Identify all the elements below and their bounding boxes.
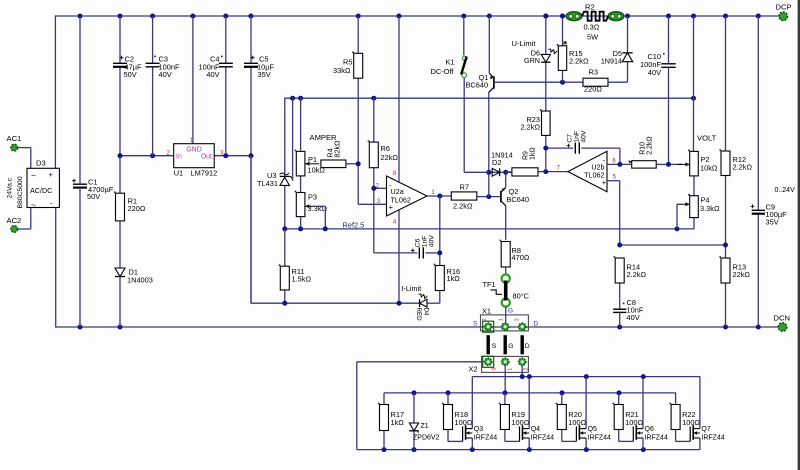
svg-text:P4: P4 [701,195,710,204]
svg-text:S: S [473,321,477,328]
junctions gate rail [412,390,622,395]
wire R22 top [675,393,677,405]
svg-text:35V: 35V [766,218,779,227]
diode D2 1N914 [491,150,513,176]
svg-text:3.3kΩ: 3.3kΩ [308,204,328,213]
junction Out line [223,153,253,158]
wire left edge bottom (D3 - to bus) [55,208,57,328]
wire P3 wiper to Ref [313,206,325,229]
svg-text:C6: C6 [415,238,422,247]
wire U1 In line [120,155,174,157]
voltage regulator U1 LM7912 [167,138,225,178]
potentiometer P1 10k [295,150,326,176]
transistor Q4 IRFZ44 [520,425,555,441]
wire Q6 source [642,438,644,450]
junction R10/C10/P2-wiper [666,162,671,167]
junction C7/R23 column [543,146,548,151]
svg-text:R7: R7 [460,183,469,192]
svg-text:R3: R3 [589,67,598,76]
svg-text:0..24V: 0..24V [775,187,796,194]
op-amp U2a TL062 [376,171,436,225]
wire I-Limit rail (-12V) [251,156,440,304]
svg-text:DCP: DCP [776,2,792,11]
wire Q4 source [528,438,530,450]
resistor R18 100ohm [442,403,473,430]
junction U2b output [617,162,622,167]
transistor Q6 IRFZ44 [633,425,668,441]
transistor Q3 IRFZ44 [463,425,498,441]
wire R22 to Q7 gate [676,430,691,442]
resistor R1 220ohm [114,191,146,221]
potentiometer P2 10k [678,150,718,176]
resistor R15 2.2k [557,42,589,71]
label I-Limit [402,284,422,293]
wire Q3 drain [471,377,473,429]
junction C6/output column [437,250,442,255]
transistor Q2 BC640 [501,172,529,240]
wire X2-G column [504,366,506,393]
wire Q3 source [471,438,473,450]
svg-text:100Ω: 100Ω [625,418,643,427]
wire R18 top [447,393,449,405]
terminal AC2 [7,216,22,233]
resistor R20 100ohm [556,403,587,430]
wire Q1 collector to base node [488,92,490,197]
svg-text:Q3: Q3 [474,426,483,433]
svg-text:3: 3 [491,368,497,371]
wire Ref2.5 line [285,218,694,229]
transistor Q7 IRFZ44 [690,425,725,441]
resistor R19 100ohm [499,403,530,430]
svg-text:40V: 40V [206,70,219,79]
wire D2 line [489,171,512,173]
wire Q5 source [585,438,587,450]
wire R20 top [561,393,563,405]
capacitor C2 47uF [113,55,142,80]
svg-text:2.2kΩ: 2.2kΩ [453,202,473,211]
svg-text:82kΩ: 82kΩ [333,140,342,158]
diode D1 1N4003 [115,268,153,285]
svg-text:B80C5000: B80C5000 [17,176,24,208]
svg-text:1kΩ: 1kΩ [447,274,461,283]
svg-text:TL062: TL062 [584,171,604,180]
wire Q7 drain [699,377,701,429]
junction R4/R5/+input [356,161,361,166]
junctions on Ref line [282,226,679,231]
svg-text:P1: P1 [308,155,317,164]
svg-text:Q5: Q5 [588,426,597,433]
svg-text:IRFZ44: IRFZ44 [531,434,554,441]
wire R18 to Q3 gate [448,430,463,442]
resistor R17 1k [378,403,404,431]
wire C6 feedback line [374,252,440,254]
svg-text:TL431: TL431 [257,179,278,188]
wire U1 GND column [192,16,194,144]
svg-text:VOLT: VOLT [697,134,717,143]
svg-text:P3: P3 [308,192,317,201]
wire P1 column [300,98,302,229]
svg-text:220Ω: 220Ω [128,204,146,213]
wire C5 column / -12V drop [250,16,252,303]
wire C9 column [757,16,759,327]
svg-text:IRFZ44: IRFZ44 [474,434,497,441]
wire P4 wiper to Ref [677,204,682,229]
svg-text:I-Limit: I-Limit [402,284,422,293]
resistor R23 2.2k [521,109,551,135]
wire U2a pin4 column [398,210,400,303]
svg-text:C7: C7 [567,134,574,143]
thermal fuse TF1 80C [483,274,530,306]
shunt reference U3 TL431 [257,171,293,188]
wire Q1 base line [494,81,583,83]
junction U2a output [437,194,442,199]
junctions I-Limit rail [282,301,401,306]
svg-text:IRFZ44: IRFZ44 [645,434,668,441]
svg-text:35V: 35V [258,70,271,79]
wire TF1 to X1 G pad [505,307,507,323]
svg-text:R10: R10 [640,142,647,155]
label VOLT [697,134,717,143]
wire left edge top (bus to D3 +) [54,15,56,168]
connector X2 [469,356,530,373]
svg-text:100Ω: 100Ω [682,418,700,427]
resistor R13 22k [719,256,750,283]
wire C3 column [152,16,154,156]
svg-text:GRN: GRN [524,56,540,65]
svg-text:2: 2 [523,368,529,371]
svg-text:50V: 50V [124,70,137,79]
svg-text:1: 1 [498,318,504,321]
wire C10 column [668,16,670,164]
svg-text:AMPER: AMPER [310,133,338,142]
wire AC1 to D3 [18,148,31,169]
svg-text:D3: D3 [36,159,46,168]
label 0..24V [775,187,796,194]
bridge rectifier D3 AC/DC [7,159,60,210]
svg-text:K1: K1 [446,57,455,66]
svg-text:G: G [508,343,513,350]
capacitor C1 4700uF [72,178,114,202]
junction R15 bottom [560,80,565,85]
wire D5 column [627,16,629,53]
wire R20 to Q5 gate [562,430,577,442]
svg-text:Ref2.5: Ref2.5 [343,220,365,229]
resistor R14 2.2k [614,256,647,283]
svg-text:10kΩ: 10kΩ [700,163,718,172]
svg-text:IRFZ44: IRFZ44 [701,434,724,441]
wire R19 top [504,393,506,405]
junction D2 cathode/Q2 emitter [503,170,508,175]
junction dots on bottom bus [78,325,761,330]
svg-text:Q7: Q7 [701,426,710,433]
svg-text:33kΩ: 33kΩ [333,66,351,75]
wire U2a output [427,195,451,197]
svg-text:2.2kΩ: 2.2kΩ [521,122,541,131]
resistor R3 220ohm [583,67,608,93]
svg-text:U1: U1 [174,169,183,178]
resistor R16 1k [434,264,461,291]
capacitor C5 10uF [244,55,274,80]
resistor R4 82k [321,140,358,168]
wire bottom bus 0V rail [55,326,778,328]
svg-text:AC2: AC2 [7,216,22,225]
svg-text:40V: 40V [159,70,172,79]
junctions source rail [382,447,646,452]
wire C2/R1/D1 column [119,16,121,327]
wire R14/R13 link line [620,244,726,246]
wire R19 to Q4 gate [505,430,520,442]
wire R21 top [618,393,620,405]
wire 98-line (ref rail) [285,97,694,99]
capacitor C4 100nF [199,55,233,80]
svg-text:2.2kΩ: 2.2kΩ [647,136,654,154]
svg-text:TF1: TF1 [483,280,496,289]
switch K1 DC-Off [431,56,468,77]
potentiometer P3 3.3k [295,191,328,217]
label U-Limit [512,39,537,48]
svg-text:D: D [525,343,530,350]
svg-text:X2: X2 [469,364,478,373]
wire P2 column [693,16,696,196]
svg-text:1kΩ: 1kΩ [530,147,537,160]
wire top bus +V rail [55,15,779,17]
wire drain rail [472,376,700,378]
wire Z1 column [413,393,415,450]
svg-text:G: G [508,307,513,314]
potentiometer P4 3.3k [678,194,720,218]
wire X2-S to frame [357,362,485,450]
svg-text:~: ~ [31,170,36,180]
wire D6/R23 column [545,16,547,172]
svg-text:1.5kΩ: 1.5kΩ [292,275,312,284]
svg-text:AC1: AC1 [7,134,22,143]
junction R6/-input [371,186,376,191]
capacitor C8 10nF [613,298,644,322]
op-amp U2b TL062 (mirrored) [557,151,617,191]
wire output/C6/R16 column [439,196,441,303]
wire R3 to D5 [608,62,628,82]
junction pin7/R23 [543,169,548,174]
label Ref2.5 [343,220,365,229]
svg-text:0.3Ω: 0.3Ω [584,23,600,32]
svg-text:D4: D4 [423,308,430,316]
wire gate rail [384,392,676,394]
svg-text:24Va.c: 24Va.c [7,177,14,198]
svg-text:S: S [492,343,497,350]
svg-text:2: 2 [482,318,488,321]
wire C1 column [79,16,81,327]
wire Q2 collector to R8/TF1 [505,267,507,275]
resistor R22 100ohm [670,403,701,430]
wire R15 column [562,16,564,82]
LED D6 GRN [524,48,557,65]
svg-text:2.2kΩ: 2.2kΩ [627,270,647,279]
wire R6 column [374,98,387,253]
svg-text:R9: R9 [523,151,530,160]
cable bars X1-X2 [488,335,530,354]
svg-text:RED: RED [415,308,422,322]
resistor R10 2.2k [628,136,656,168]
terminal DCP [776,2,792,20]
capacitor C10 100nF [640,52,676,77]
resistor R12 2.2k [719,149,752,175]
svg-text:X1: X1 [482,307,491,316]
resistor R21 100ohm [613,403,644,430]
svg-text:TL062: TL062 [391,196,411,205]
wire R10 to P2 wiper [656,163,682,165]
page right edge [798,0,800,470]
junction dots on top bus [78,14,761,19]
svg-text:LM7912: LM7912 [191,169,218,178]
svg-text:50V: 50V [87,192,100,201]
wire R11 column [284,229,286,303]
wire K1 column [464,16,489,172]
svg-text:~: ~ [31,200,36,210]
svg-text:1nF: 1nF [422,236,429,248]
transistor Q1 BC640 [466,16,494,92]
svg-text:Q6: Q6 [645,426,654,433]
wire U2b output line [607,163,632,165]
capacitor C9 100uF [751,202,787,226]
svg-text:1: 1 [507,368,513,371]
resistor R6 22k [368,140,399,167]
power resistor R2 0.3ohm 5W [566,2,624,41]
wire Q5 drain [585,377,587,429]
svg-text:1kΩ: 1kΩ [391,418,405,427]
svg-text:1N4003: 1N4003 [127,276,153,285]
wire R14/C8 column [619,258,621,327]
svg-text:Q4: Q4 [531,426,540,433]
svg-text:Out: Out [201,154,212,161]
wire Q6 drain [642,377,644,429]
svg-text:D: D [533,321,538,328]
svg-text:2.2kΩ: 2.2kΩ [569,56,589,65]
svg-text:80°C: 80°C [513,292,530,301]
wire X2-D column [521,366,523,377]
svg-text:40V: 40V [648,68,661,77]
svg-text:3.3kΩ: 3.3kΩ [700,204,720,213]
label G (blue, above X1) [508,307,513,314]
svg-text:+: + [49,170,54,179]
wire C7 feedback line [546,148,620,164]
junction D2 anode node [486,170,491,175]
wire C4 column [225,16,227,156]
resistor R9 1k [512,147,538,176]
terminal AC1 [7,134,22,151]
svg-text:22kΩ: 22kΩ [733,270,751,279]
capacitor C6 1nF [411,235,436,259]
wire R7 to Q2 base [477,196,501,198]
label AMPER [310,133,338,142]
junctions drain rail [520,374,646,379]
wire source rail [357,449,701,451]
svg-text:40V: 40V [581,130,588,143]
svg-text:U-Limit: U-Limit [512,39,537,48]
svg-text:100Ω: 100Ω [455,418,473,427]
wire TL431 ref pin column [292,98,294,180]
svg-text:40V: 40V [429,235,436,248]
svg-text:5W: 5W [587,32,598,41]
wire AC2 to D3 [18,208,31,230]
svg-text:220Ω: 220Ω [584,85,602,94]
terminal DCN [774,313,790,331]
wire R12 column [725,16,727,327]
svg-text:DCN: DCN [774,313,790,322]
svg-text:AC/DC: AC/DC [30,186,52,195]
svg-text:2.2kΩ: 2.2kΩ [733,163,753,172]
wire R5 column / +input chain [358,16,386,204]
junction In line [118,153,156,158]
svg-text:DC-Off: DC-Off [431,67,455,76]
wire R17 column [383,393,385,450]
wire U3 anode to Ref line [284,185,286,229]
svg-text:BC640: BC640 [466,81,489,90]
diode D5 1N914 [601,49,633,66]
svg-text:1nF: 1nF [574,131,581,143]
resistor R8 470ohm [500,240,530,267]
svg-text:40V: 40V [627,313,640,322]
wire D2 node to R9 [506,171,512,173]
svg-text:R2: R2 [585,2,595,11]
svg-text:3: 3 [515,318,521,321]
svg-text:470Ω: 470Ω [512,253,530,262]
LED D4 RED [415,294,429,321]
junctions on 98-line [290,96,696,101]
svg-text:100Ω: 100Ω [511,418,529,427]
wire R9 to U2b pin7 [538,171,568,173]
svg-text:1N914: 1N914 [601,57,622,66]
junctions 245-line [617,243,728,248]
svg-text:1N914: 1N914 [491,150,513,159]
junction dots beside R2 [543,14,565,19]
svg-text:Z1: Z1 [421,423,429,430]
connector X1 [473,307,538,333]
svg-text:ZPD6V2: ZPD6V2 [413,435,440,442]
svg-text:BC640: BC640 [507,195,530,204]
wire U1 Out line [214,155,251,157]
wire Q7 source [699,438,701,450]
svg-text:IRFZ44: IRFZ44 [588,434,611,441]
resistor R5 33k [333,52,363,79]
svg-text:22kΩ: 22kΩ [381,153,399,162]
transistor Q5 IRFZ44 [576,425,611,441]
wire U3 cathode column [284,98,286,177]
resistor R7 2.2k [451,183,477,211]
junction Q2 base node [486,194,491,199]
wire Q4 drain [528,377,530,429]
wire U2b pin5 [607,181,620,245]
svg-text:100Ω: 100Ω [568,418,586,427]
capacitor C3 100nF [146,55,180,80]
capacitor C7 1nF [567,130,588,154]
wire R21 to Q6 gate [619,430,634,442]
svg-text:GND: GND [186,146,202,153]
svg-text:In: In [176,154,182,161]
resistor R11 1.5k [279,264,312,290]
zener Z1 ZPD6V2 [409,423,439,442]
wire U2a pin8 supply column [398,16,400,182]
